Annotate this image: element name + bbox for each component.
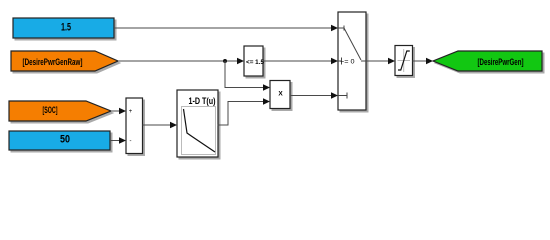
- svg-text:50: 50: [60, 134, 70, 146]
- wire from lookup table output up to product block input 2: [218, 98, 271, 125]
- svg-text:-: -: [130, 139, 132, 145]
- From tag [SOC]: [9, 101, 113, 123]
- lookup table block 1-D T(u): [177, 90, 220, 159]
- svg-text:1.5: 1.5: [61, 22, 71, 34]
- junction node on DesirePwrGenRaw wire: [223, 59, 227, 63]
- svg-text:[SOC]: [SOC]: [43, 105, 58, 116]
- svg-text:<= 1.5: <= 1.5: [246, 59, 264, 66]
- svg-text:1-D T(u): 1-D T(u): [189, 96, 216, 106]
- wire from [SOC] to sum block input +: [111, 108, 126, 115]
- wire from sum block to lookup table: [143, 122, 178, 129]
- compare block <= 1.5: [244, 46, 265, 78]
- From tag [DesirePwrGenRaw]: [11, 51, 120, 73]
- saturation block S1: [395, 46, 415, 78]
- constant block C1 value 1.5: [13, 18, 116, 40]
- svg-text:+: +: [129, 109, 133, 115]
- product block X: [270, 81, 292, 111]
- wire branch from junction down to product block input 1: [225, 61, 270, 91]
- wire from product block to switch input 3: [290, 92, 338, 99]
- svg-text:~= 0: ~= 0: [340, 59, 355, 66]
- wire from compare block to switch control input: [263, 58, 338, 65]
- sum block A1 (plus minus): [126, 98, 145, 156]
- wire from [DesirePwrGenRaw] to compare block: [118, 58, 244, 65]
- svg-text:X: X: [278, 91, 283, 98]
- wire from switch output to saturation block: [366, 58, 395, 65]
- Goto tag [DesirePwrGen]: [433, 51, 544, 73]
- wire from saturation block to Goto tag: [413, 58, 434, 65]
- switch block SW1 ~= 0: [338, 12, 368, 112]
- wire from constant 50 to sum block input -: [110, 137, 126, 144]
- wire from constant 1.5 to switch input 1: [114, 25, 338, 32]
- svg-text:[DesirePwrGen]: [DesirePwrGen]: [478, 57, 524, 68]
- svg-text:[DesirePwrGenRaw]: [DesirePwrGenRaw]: [23, 57, 83, 68]
- constant block C2 value 50: [9, 131, 112, 152]
